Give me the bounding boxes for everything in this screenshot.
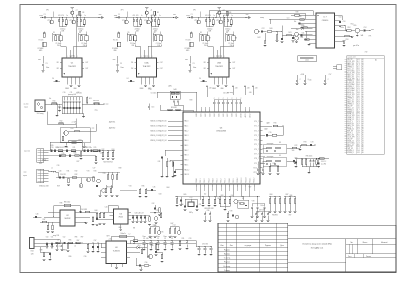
svg-text:C30 C31: C30 C31 <box>60 174 66 176</box>
svg-text:25В: 25В <box>204 45 207 47</box>
svg-text:C4: C4 <box>127 78 129 80</box>
svg-text:ПИТ: ПИТ <box>106 236 109 238</box>
svg-text:вход: вход <box>114 15 117 17</box>
svg-text:4PWM_O: 4PWM_O <box>347 104 355 106</box>
svg-text:XBUS_ОСН/ДОП_К1: XBUS_ОСН/ДОП_К1 <box>150 126 166 128</box>
svg-text:C4: C4 <box>52 78 54 80</box>
svg-text:11.2: 11.2 <box>357 61 360 63</box>
svg-text:17.3: 17.3 <box>357 121 360 123</box>
svg-text:XS4: XS4 <box>31 251 34 253</box>
svg-text:OUT: OUT <box>160 68 163 70</box>
svg-text:вход: вход <box>39 15 42 17</box>
svg-text:+5В: +5В <box>255 88 258 90</box>
svg-text:POWER: POWER <box>185 48 192 50</box>
svg-text:PB3.3: PB3.3 <box>208 178 210 182</box>
svg-text:C64: C64 <box>231 195 234 197</box>
svg-text:2IN_ПР: 2IN_ПР <box>347 138 353 140</box>
svg-text:+5В: +5В <box>146 238 149 240</box>
svg-text:R26: R26 <box>74 152 77 154</box>
svg-text:Дата: Дата <box>280 245 284 247</box>
svg-text:16.6: 16.6 <box>357 69 360 71</box>
svg-text:25В: 25В <box>131 45 134 47</box>
svg-text:R25: R25 <box>94 147 97 149</box>
svg-text:обозн: обозн <box>305 59 309 61</box>
svg-text:R75: R75 <box>273 163 276 165</box>
svg-text:20.7: 20.7 <box>357 129 360 131</box>
svg-text:R49: R49 <box>296 12 299 14</box>
svg-text:24.8: 24.8 <box>357 131 360 133</box>
svg-text:R74: R74 <box>295 157 298 159</box>
svg-text:16В: 16В <box>226 30 229 32</box>
svg-text:XS1 вход: XS1 вход <box>37 113 44 115</box>
svg-text:ООС 12: ООС 12 <box>321 161 326 163</box>
svg-text:28.5: 28.5 <box>357 125 360 127</box>
svg-text:синхр: синхр <box>260 17 264 19</box>
svg-text:VT1: VT1 <box>194 20 197 22</box>
svg-text:U5B: U5B <box>217 63 222 65</box>
svg-text:C53: C53 <box>343 21 346 23</box>
svg-text:C90: C90 <box>145 262 148 264</box>
svg-text:+12В: +12В <box>108 238 111 240</box>
svg-text:R32: R32 <box>75 170 78 172</box>
svg-text:21.7: 21.7 <box>357 148 360 150</box>
svg-text:IN2: IN2 <box>57 68 59 70</box>
svg-text:16В: 16В <box>208 30 211 32</box>
svg-text:1CLK_SPI: 1CLK_SPI <box>347 137 355 139</box>
svg-text:PB10.2: PB10.2 <box>237 177 239 182</box>
svg-text:21.4: 21.4 <box>357 65 360 67</box>
svg-text:R70: R70 <box>274 123 277 125</box>
svg-text:NE5532: NE5532 <box>65 218 71 220</box>
svg-text:PB6.2: PB6.2 <box>221 178 223 182</box>
svg-text:16В: 16В <box>154 30 157 32</box>
svg-text:10мк: 10мк <box>149 236 153 238</box>
svg-text:VT1: VT1 <box>216 20 219 22</box>
svg-text:XT3_Г: XT3_Г <box>254 135 259 137</box>
svg-text:OUT: OUT <box>232 62 235 64</box>
svg-text:Лист: Лист <box>348 256 352 258</box>
svg-text:10мк: 10мк <box>120 67 124 69</box>
svg-text:2200мк: 2200мк <box>225 28 231 30</box>
svg-text:28.5: 28.5 <box>357 144 360 146</box>
svg-text:C41 R38: C41 R38 <box>81 209 87 211</box>
svg-text:R73: R73 <box>304 142 307 144</box>
svg-text:U8: U8 <box>279 142 281 144</box>
svg-text:26.6: 26.6 <box>357 127 360 129</box>
svg-text:15.1: 15.1 <box>357 137 360 139</box>
svg-text:XT5_Г: XT5_Г <box>254 144 259 146</box>
svg-text:TDA 2822: TDA 2822 <box>215 65 223 68</box>
svg-text:78L05: 78L05 <box>118 217 123 219</box>
svg-text:VT8: VT8 <box>252 200 255 202</box>
svg-text:IN1: IN1 <box>204 62 206 64</box>
svg-text:20.0: 20.0 <box>357 115 360 117</box>
svg-text:C40: C40 <box>36 214 39 216</box>
svg-text:11.1: 11.1 <box>357 78 360 80</box>
svg-text:23.3: 23.3 <box>357 140 360 142</box>
svg-text:+5В: +5В <box>249 92 252 94</box>
svg-text:VT1: VT1 <box>122 20 125 22</box>
svg-text:XT8_Г: XT8_Г <box>254 158 259 160</box>
svg-text:27.9: 27.9 <box>357 113 360 115</box>
svg-text:28.3: 28.3 <box>357 82 360 84</box>
svg-text:R36: R36 <box>60 202 63 204</box>
svg-text:C22: C22 <box>262 28 265 30</box>
svg-text:R31: R31 <box>67 170 70 172</box>
svg-text:R6: R6 <box>226 32 228 34</box>
svg-text:560: 560 <box>292 150 295 152</box>
svg-text:12.6: 12.6 <box>357 107 360 109</box>
svg-text:R27: R27 <box>77 161 80 163</box>
svg-text:C3: C3 <box>120 63 122 65</box>
svg-text:15.2: 15.2 <box>357 100 360 102</box>
svg-text:470: 470 <box>208 15 211 17</box>
svg-text:17.6: 17.6 <box>357 88 360 90</box>
svg-text:вых лев: вых лев <box>93 100 99 102</box>
svg-text:XBUS_ОСН/ДОП_К2: XBUS_ОСН/ДОП_К2 <box>150 130 166 132</box>
svg-text:8CLK_SPI: 8CLK_SPI <box>347 73 355 75</box>
svg-text:R8: R8 <box>235 38 237 40</box>
svg-text:C93: C93 <box>189 238 192 240</box>
svg-text:OUT: OUT <box>85 68 88 70</box>
svg-text:VT4: VT4 <box>103 173 106 175</box>
svg-text:R6: R6 <box>79 32 81 34</box>
svg-text:VREF: VREF <box>139 88 143 90</box>
svg-text:R72: R72 <box>295 145 298 147</box>
svg-text:2CLK_SPI: 2CLK_SPI <box>347 61 355 63</box>
svg-text:R51: R51 <box>301 37 304 39</box>
svg-text:14.1: 14.1 <box>357 59 360 61</box>
svg-text:вых: вых <box>371 29 374 31</box>
svg-text:VT5: VT5 <box>156 210 159 212</box>
svg-text:R96: R96 <box>75 236 78 238</box>
svg-text:R98: R98 <box>40 250 43 252</box>
svg-text:R1 47к: R1 47к <box>39 39 44 41</box>
svg-text:оптопара: оптопара <box>267 156 274 158</box>
svg-text:R10: R10 <box>53 101 56 103</box>
svg-text:1мк: 1мк <box>296 29 299 31</box>
svg-text:XBUS_ОСН/ДОП_К0: XBUS_ОСН/ДОП_К0 <box>150 121 166 123</box>
svg-text:вых: вых <box>173 14 176 16</box>
svg-text:8БП_КЛ: 8БП_КЛ <box>347 131 353 133</box>
svg-text:R47: R47 <box>171 223 174 225</box>
svg-text:R3: R3 <box>157 12 159 14</box>
svg-text:С26: С26 <box>57 165 60 167</box>
svg-text:VT1: VT1 <box>47 20 50 22</box>
svg-text:0CLK_SPI: 0CLK_SPI <box>347 115 355 117</box>
svg-text:R46: R46 <box>154 225 157 227</box>
svg-text:C57: C57 <box>329 74 332 76</box>
svg-text:R99: R99 <box>69 256 72 258</box>
svg-text:470: 470 <box>61 15 64 17</box>
svg-text:IN1: IN1 <box>57 62 59 64</box>
svg-text:C98 R96: C98 R96 <box>61 250 67 252</box>
svg-text:Масса: Масса <box>363 242 368 244</box>
svg-text:19.1: 19.1 <box>357 98 360 100</box>
svg-text:+3.3В: +3.3В <box>300 74 304 76</box>
svg-text:вход 12В: вход 12В <box>53 235 59 237</box>
svg-text:PB4.0: PB4.0 <box>212 178 214 182</box>
svg-text:C56: C56 <box>309 79 312 81</box>
svg-text:C12: C12 <box>77 92 80 94</box>
svg-text:10мк: 10мк <box>156 236 160 238</box>
svg-text:R5: R5 <box>128 32 130 34</box>
svg-text:C97: C97 <box>94 240 97 242</box>
svg-text:VT1: VT1 <box>144 20 147 22</box>
svg-text:R95 100н: R95 100н <box>306 155 313 157</box>
svg-text:оптопара: оптопара <box>259 156 265 158</box>
svg-text:C63: C63 <box>159 194 162 196</box>
svg-text:R6: R6 <box>154 32 156 34</box>
svg-text:6SCL_12: 6SCL_12 <box>347 69 354 71</box>
svg-text:10мк: 10мк <box>46 67 50 69</box>
svg-text:вых лев: вых лев <box>24 151 30 153</box>
svg-text:R65: R65 <box>184 194 187 196</box>
svg-text:TDA 2822: TDA 2822 <box>143 65 151 68</box>
svg-text:16В: 16В <box>61 30 64 32</box>
svg-text:вход: вход <box>186 15 189 17</box>
svg-text:C70: C70 <box>269 132 272 134</box>
svg-text:7PWM_O: 7PWM_O <box>347 109 355 111</box>
svg-text:C75: C75 <box>261 163 264 165</box>
svg-text:XBUS_ОСН/ДОП_К3: XBUS_ОСН/ДОП_К3 <box>150 135 166 137</box>
svg-text:C9: C9 <box>171 238 173 240</box>
svg-text:дин 4Ом: дин 4Ом <box>353 45 359 47</box>
svg-text:6OUT_L: 6OUT_L <box>347 127 353 129</box>
svg-text:вых: вых <box>246 14 249 16</box>
svg-text:C61: C61 <box>199 204 202 206</box>
svg-text:XS2: XS2 <box>39 163 42 165</box>
svg-text:C87 C88: C87 C88 <box>259 210 265 212</box>
svg-text:R41: R41 <box>289 32 292 34</box>
svg-text:R32: R32 <box>75 174 78 176</box>
svg-text:PB11.3: PB11.3 <box>241 178 243 183</box>
svg-text:28.4: 28.4 <box>357 84 360 86</box>
svg-text:10мк: 10мк <box>142 236 146 238</box>
svg-text:R11: R11 <box>89 98 92 100</box>
svg-text:10мк: 10мк <box>170 236 174 238</box>
svg-text:GND: GND <box>118 227 121 229</box>
svg-text:Утверд.: Утверд. <box>224 270 231 272</box>
svg-text:8PWM_O: 8PWM_O <box>347 150 355 152</box>
svg-text:19.8: 19.8 <box>357 92 360 94</box>
svg-text:16.4: 16.4 <box>357 104 360 106</box>
svg-text:R87: R87 <box>289 214 292 216</box>
svg-text:R1 47к: R1 47к <box>186 39 191 41</box>
svg-text:CS8416: CS8416 <box>322 20 329 22</box>
svg-text:13.5: 13.5 <box>357 106 360 108</box>
svg-text:OUT: OUT <box>232 68 235 70</box>
svg-text:22.5: 22.5 <box>357 86 360 88</box>
svg-text:C95 C96: C95 C96 <box>202 244 208 246</box>
svg-text:С1: С1 <box>118 14 120 16</box>
svg-text:12.4: 12.4 <box>357 142 360 144</box>
svg-text:1CLK_SPI: 1CLK_SPI <box>347 78 355 80</box>
svg-text:+U: +U <box>150 10 152 12</box>
svg-text:27.0: 27.0 <box>357 76 360 78</box>
svg-text:R80 R81 R82: R80 R81 R82 <box>204 208 213 210</box>
svg-text:C6 100н: C6 100н <box>151 92 157 94</box>
svg-text:10мк: 10мк <box>193 67 197 69</box>
svg-text:22н: 22н <box>57 147 60 149</box>
svg-text:R24: R24 <box>112 149 115 151</box>
svg-text:8МГц: 8МГц <box>189 212 193 214</box>
svg-text:1IN_ПР: 1IN_ПР <box>347 59 353 61</box>
svg-text:R19: R19 <box>51 145 54 147</box>
svg-text:IN2: IN2 <box>204 68 206 70</box>
svg-text:R83: R83 <box>221 195 224 197</box>
svg-text:C86: C86 <box>207 210 210 212</box>
svg-text:9PWM_O: 9PWM_O <box>347 152 355 154</box>
svg-text:R22: R22 <box>102 149 105 151</box>
svg-text:прав: прав <box>23 175 27 177</box>
svg-text:3+5B_ЦП: 3+5B_ЦП <box>347 82 355 84</box>
svg-text:+U: +U <box>76 10 78 12</box>
svg-text:IN2: IN2 <box>131 68 133 70</box>
svg-text:16.8: 16.8 <box>357 111 360 113</box>
svg-text:C3: C3 <box>46 63 48 65</box>
svg-text:C35: C35 <box>153 186 156 188</box>
svg-text:С1: С1 <box>191 14 193 16</box>
svg-text:100мк 25В: 100мк 25В <box>42 186 49 188</box>
svg-text:10к: 10к <box>204 194 207 196</box>
svg-text:суб НЧ: суб НЧ <box>70 56 75 58</box>
svg-text:12.9: 12.9 <box>357 133 360 135</box>
svg-text:PB13.1: PB13.1 <box>250 177 252 182</box>
svg-text:R37: R37 <box>43 219 46 221</box>
svg-text:VT1: VT1 <box>69 20 72 22</box>
svg-text:2200мк: 2200мк <box>78 28 84 30</box>
svg-text:C60: C60 <box>181 204 184 206</box>
svg-text:R87: R87 <box>286 194 289 196</box>
svg-text:C13: C13 <box>151 107 154 109</box>
svg-text:VREF: VREF <box>212 88 216 90</box>
svg-text:C9: C9 <box>150 238 152 240</box>
svg-text:такт: такт <box>287 18 290 20</box>
svg-text:100мкГн: 100мкГн <box>120 233 126 235</box>
svg-text:вых: вых <box>92 128 95 130</box>
svg-text:C11: C11 <box>70 92 73 94</box>
svg-text:R39: R39 <box>57 185 60 187</box>
svg-text:C98: C98 <box>59 246 62 248</box>
svg-text:+5В: +5В <box>247 88 250 90</box>
svg-text:C23: C23 <box>85 147 88 149</box>
svg-text:U5A: U5A <box>145 62 150 65</box>
svg-text:Т. контр.: Т. контр. <box>224 258 231 260</box>
svg-text:C10: C10 <box>63 92 66 94</box>
svg-text:VD3: VD3 <box>301 24 304 26</box>
svg-text:C9: C9 <box>157 238 159 240</box>
svg-text:R42: R42 <box>258 37 261 39</box>
svg-text:5IN_ПР: 5IN_ПР <box>347 106 353 108</box>
svg-text:XT2_Г: XT2_Г <box>254 130 259 132</box>
svg-text:XS2-3: XS2-3 <box>42 160 46 162</box>
svg-text:2PWM_O: 2PWM_O <box>347 80 355 82</box>
svg-text:PB0.0: PB0.0 <box>196 178 198 182</box>
svg-text:14.2: 14.2 <box>357 138 360 140</box>
svg-text:R22 R23 R24: R22 R23 R24 <box>103 161 112 163</box>
svg-text:Масштаб: Масштаб <box>381 242 388 244</box>
svg-text:23.8: 23.8 <box>357 73 360 75</box>
svg-text:17.4: 17.4 <box>357 123 360 125</box>
svg-text:R86: R86 <box>290 195 293 197</box>
svg-text:10мк: 10мк <box>163 236 167 238</box>
svg-text:VD1: VD1 <box>138 245 141 247</box>
svg-text:25В: 25В <box>57 45 60 47</box>
svg-text:14.9: 14.9 <box>357 94 360 96</box>
svg-text:0SCL_12: 0SCL_12 <box>347 96 354 98</box>
svg-text:VT9: VT9 <box>230 211 233 213</box>
svg-text:1PWM_O: 1PWM_O <box>347 98 355 100</box>
svg-text:PB9.1: PB9.1 <box>233 178 235 182</box>
svg-text:1н: 1н <box>90 147 92 149</box>
svg-text:C54: C54 <box>339 17 342 19</box>
svg-text:POWER: POWER <box>112 48 119 50</box>
svg-text:L4: L4 <box>74 246 76 248</box>
svg-text:100н: 100н <box>260 205 264 207</box>
svg-text:C52: C52 <box>63 236 66 238</box>
svg-text:R84: R84 <box>270 194 273 196</box>
svg-text:8PWM_O: 8PWM_O <box>347 111 355 113</box>
svg-text:17.9: 17.9 <box>357 74 360 76</box>
svg-text:12В: 12В <box>31 254 34 256</box>
svg-text:PB2.2: PB2.2 <box>204 178 206 182</box>
svg-text:C4: C4 <box>199 78 201 80</box>
svg-text:6SCL_12: 6SCL_12 <box>347 107 354 109</box>
svg-text:XBUS_ОСН/ДОП_К4: XBUS_ОСН/ДОП_К4 <box>150 140 166 142</box>
svg-text:TDA 2822: TDA 2822 <box>68 65 76 68</box>
svg-text:ГР1: ГР1 <box>369 35 372 37</box>
svg-text:R53: R53 <box>346 39 349 41</box>
svg-text:оптопара: оптопара <box>267 143 274 145</box>
svg-text:R12: R12 <box>60 121 63 123</box>
svg-text:ХР1: ХР1 <box>46 10 49 12</box>
svg-text:13.0: 13.0 <box>357 96 360 98</box>
svg-text:2200мк: 2200мк <box>135 28 141 30</box>
svg-text:VT3: VT3 <box>87 170 90 172</box>
svg-text:U3: U3 <box>119 214 121 216</box>
svg-text:лев кан: лев кан <box>143 56 148 58</box>
svg-text:C27: C27 <box>93 167 96 169</box>
svg-text:PB14.2: PB14.2 <box>254 177 256 182</box>
svg-text:100н: 100н <box>340 27 344 29</box>
svg-text:VT6: VT6 <box>161 231 164 233</box>
svg-text:C62: C62 <box>152 203 155 205</box>
svg-text:вых: вых <box>113 59 116 61</box>
svg-text:Листов: Листов <box>366 256 371 258</box>
svg-text:PB12.0: PB12.0 <box>245 177 247 182</box>
svg-text:R40: R40 <box>270 28 273 30</box>
svg-text:5PWM_O: 5PWM_O <box>347 86 355 88</box>
svg-text:21.2: 21.2 <box>357 119 360 121</box>
svg-text:R7: R7 <box>209 38 211 40</box>
svg-text:L1: L1 <box>51 168 53 170</box>
svg-text:C45 C46 C47: C45 C46 C47 <box>134 212 143 214</box>
svg-text:VT4: VT4 <box>129 186 132 188</box>
svg-text:Изм: Изм <box>221 245 224 247</box>
svg-text:вых: вых <box>106 104 109 106</box>
svg-text:C61: C61 <box>158 161 161 163</box>
svg-text:16В: 16В <box>136 30 139 32</box>
svg-text:28.3: 28.3 <box>357 102 360 104</box>
svg-text:R36 220к: R36 220к <box>64 202 71 204</box>
svg-text:+5В: +5В <box>209 88 212 90</box>
svg-text:R21: R21 <box>73 147 76 149</box>
svg-text:XT6_Г: XT6_Г <box>254 149 259 151</box>
svg-text:R84 R85: R84 R85 <box>272 214 278 216</box>
svg-text:IN1: IN1 <box>131 62 133 64</box>
svg-text:R61: R61 <box>169 161 172 163</box>
